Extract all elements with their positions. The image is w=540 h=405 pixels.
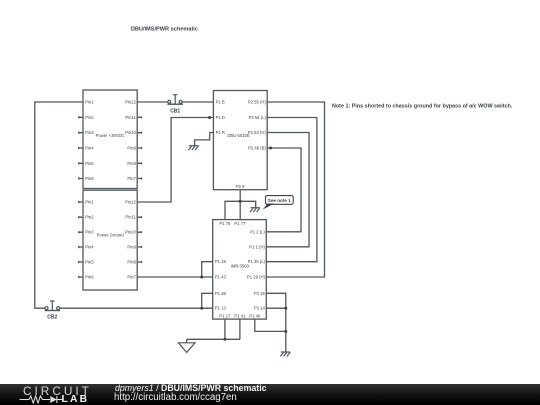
svg-text:P1 1 (H): P1 1 (H) [249,244,265,249]
svg-text:Pin5: Pin5 [85,161,94,166]
svg-text:DBU/IMS/PWR schematic: DBU/IMS/PWR schematic [131,27,198,33]
svg-text:Pin6: Pin6 [85,275,94,280]
svg-text:P1 43: P1 43 [215,275,227,280]
svg-text:Pin11: Pin11 [125,215,136,220]
svg-text:P2 55 (H): P2 55 (H) [248,100,267,105]
svg-text:Pin10: Pin10 [125,130,136,135]
svg-text:Pin5: Pin5 [85,260,94,265]
svg-text:Power Ground: Power Ground [97,233,125,238]
svg-text:Power +28VDC: Power +28VDC [96,133,125,138]
svg-text:Pin2: Pin2 [85,215,94,220]
svg-text:P1 17: P1 17 [219,314,231,319]
svg-text:Pin9: Pin9 [127,245,136,250]
svg-text:CB1: CB1 [170,109,180,115]
svg-text:P1 14: P1 14 [254,306,266,311]
svg-text:P1 30 (L): P1 30 (L) [248,259,266,264]
svg-text:P1 15: P1 15 [254,291,266,296]
svg-text:Pin12: Pin12 [125,200,136,205]
svg-text:P1 41: P1 41 [234,314,246,319]
svg-text:IMB-3500: IMB-3500 [231,263,250,268]
svg-text:P2 54 (L): P2 54 (L) [249,115,267,120]
svg-text:See note 1: See note 1 [268,198,291,203]
svg-text:Pin10: Pin10 [125,230,136,235]
svg-text:Pin9: Pin9 [127,146,136,151]
svg-text:P1 18: P1 18 [215,259,227,264]
svg-text:P1 76: P1 76 [219,221,231,226]
svg-text:P1 D: P1 D [216,115,225,120]
svg-text:DBU-5010E: DBU-5010E [227,133,250,138]
svg-text:P1 40: P1 40 [249,314,261,319]
svg-text:P2 9: P2 9 [236,184,245,189]
svg-text:Pin1: Pin1 [85,200,94,205]
svg-text:Pin7: Pin7 [127,275,136,280]
svg-text:P2 48 (B): P2 48 (B) [248,146,266,151]
svg-text:Pin4: Pin4 [85,245,94,250]
svg-text:Pin3: Pin3 [85,130,94,135]
svg-text:Note 1: Pins shorted to chassi: Note 1: Pins shorted to chassis ground f… [332,104,513,110]
svg-text:Pin1: Pin1 [85,100,94,105]
svg-text:Pin2: Pin2 [85,115,94,120]
svg-text:P1 2 (L): P1 2 (L) [250,229,266,234]
svg-text:Pin3: Pin3 [85,230,94,235]
svg-text:Pin12: Pin12 [125,100,136,105]
svg-text:Pin8: Pin8 [127,161,136,166]
svg-text:P1 R: P1 R [216,130,225,135]
svg-text:Pin4: Pin4 [85,146,94,151]
svg-text:CB2: CB2 [47,315,57,321]
svg-text:Pin7: Pin7 [127,176,136,181]
svg-text:Pin8: Pin8 [127,260,136,265]
svg-text:Pin11: Pin11 [125,115,136,120]
svg-text:P1 29 (H): P1 29 (H) [247,275,266,280]
svg-text:Pin6: Pin6 [85,176,94,181]
svg-text:P1 13: P1 13 [215,306,227,311]
svg-text:P1 38: P1 38 [215,291,227,296]
svg-text:P1 77: P1 77 [234,221,246,226]
svg-text:P2 53 (H): P2 53 (H) [248,130,267,135]
svg-text:P1 B: P1 B [216,100,225,105]
